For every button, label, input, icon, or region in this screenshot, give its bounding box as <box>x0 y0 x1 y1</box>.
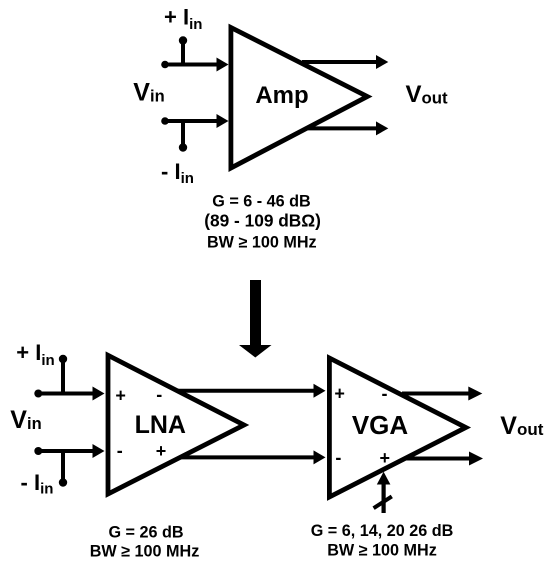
label Vout (top amp) <box>406 81 449 108</box>
svg-text:BW ≥ 100 MHz: BW ≥ 100 MHz <box>207 233 317 251</box>
label +Iin (top amp) <box>164 4 202 33</box>
wire lower input (top amp) <box>161 114 228 128</box>
svg-text:G = 26 dB: G = 26 dB <box>108 524 183 542</box>
svg-text:-: - <box>117 441 123 461</box>
label +Iin (bottom) <box>16 340 54 369</box>
node +Iin stub (bottom) <box>59 355 67 394</box>
svg-text:-: - <box>156 385 162 405</box>
wire LNA to VGA upper <box>177 384 326 398</box>
wire lower output (top amp) <box>306 121 388 135</box>
svg-text:-: - <box>335 447 341 467</box>
label -Iin (top amp) <box>161 159 194 187</box>
node -Iin stub (bottom) <box>59 451 67 487</box>
svg-text:Amp: Amp <box>255 82 308 109</box>
node -Iin stub (top amp) <box>179 121 187 152</box>
svg-text:+: + <box>115 386 126 406</box>
op-amp VGA <box>329 358 465 497</box>
svg-text:(89 - 109 dBΩ): (89 - 109 dBΩ) <box>204 211 321 231</box>
node +Iin stub (top amp) <box>179 36 187 64</box>
transition arrow <box>239 280 272 358</box>
wire upper output (top amp) <box>302 55 388 69</box>
label Vin (top amp) <box>133 79 164 107</box>
svg-text:VGA: VGA <box>352 410 409 440</box>
svg-text:G = 6 - 46 dB: G = 6 - 46 dB <box>212 193 311 211</box>
svg-text:+: + <box>334 384 345 404</box>
svg-text:BW ≥ 100 MHz: BW ≥ 100 MHz <box>327 542 437 560</box>
op-amp LNA <box>108 355 244 494</box>
gain control arrow (VGA) <box>374 472 392 513</box>
op-amp Amp <box>231 28 367 169</box>
wire LNA to VGA lower <box>181 450 326 464</box>
wire lower output (VGA) <box>403 452 483 466</box>
wire lower input (LNA) <box>34 444 104 458</box>
wire upper input (LNA) <box>34 387 104 401</box>
svg-text:G = 6, 14, 20 26 dB: G = 6, 14, 20 26 dB <box>311 522 454 540</box>
svg-text:-: - <box>382 383 388 403</box>
svg-text:LNA: LNA <box>135 411 186 439</box>
label Vout (bottom) <box>500 412 543 440</box>
svg-text:+: + <box>156 441 167 461</box>
wire upper output (VGA) <box>402 387 482 401</box>
svg-text:BW ≥ 100 MHz: BW ≥ 100 MHz <box>90 543 200 561</box>
label -Iin (bottom) <box>21 470 54 498</box>
svg-text:+: + <box>379 448 390 468</box>
wire upper input (top amp) <box>161 58 228 72</box>
label Vin (bottom) <box>10 406 41 434</box>
